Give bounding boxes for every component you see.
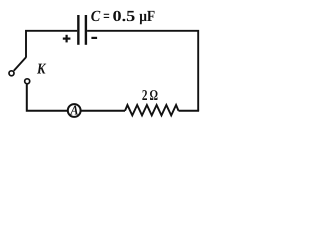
switch K lever arm xyxy=(14,57,26,71)
wire: bottom-right lead to resistor xyxy=(179,110,200,112)
wire: left vertical + top-left horizontal to capacitor xyxy=(26,31,77,58)
switch K lever tip terminal (open) xyxy=(9,71,14,76)
capacitor minus polarity mark xyxy=(91,37,97,39)
wire: ammeter to bottom-left corner, up to switch terminal xyxy=(27,84,68,110)
capacitor C right plate xyxy=(85,15,87,45)
wire: resistor to ammeter xyxy=(82,110,126,112)
wire: top-right horizontal + right vertical xyxy=(87,31,198,111)
capacitor plus polarity mark xyxy=(63,35,71,43)
svg-text:K: K xyxy=(36,61,46,77)
ammeter A circle xyxy=(68,104,81,117)
resistor R 2-ohm zigzag xyxy=(125,105,179,115)
capacitor C left plate xyxy=(77,15,79,45)
svg-text:A: A xyxy=(70,103,79,118)
switch K fixed terminal (lower) xyxy=(25,79,30,84)
svg-text:2Ω: 2Ω xyxy=(142,88,158,104)
